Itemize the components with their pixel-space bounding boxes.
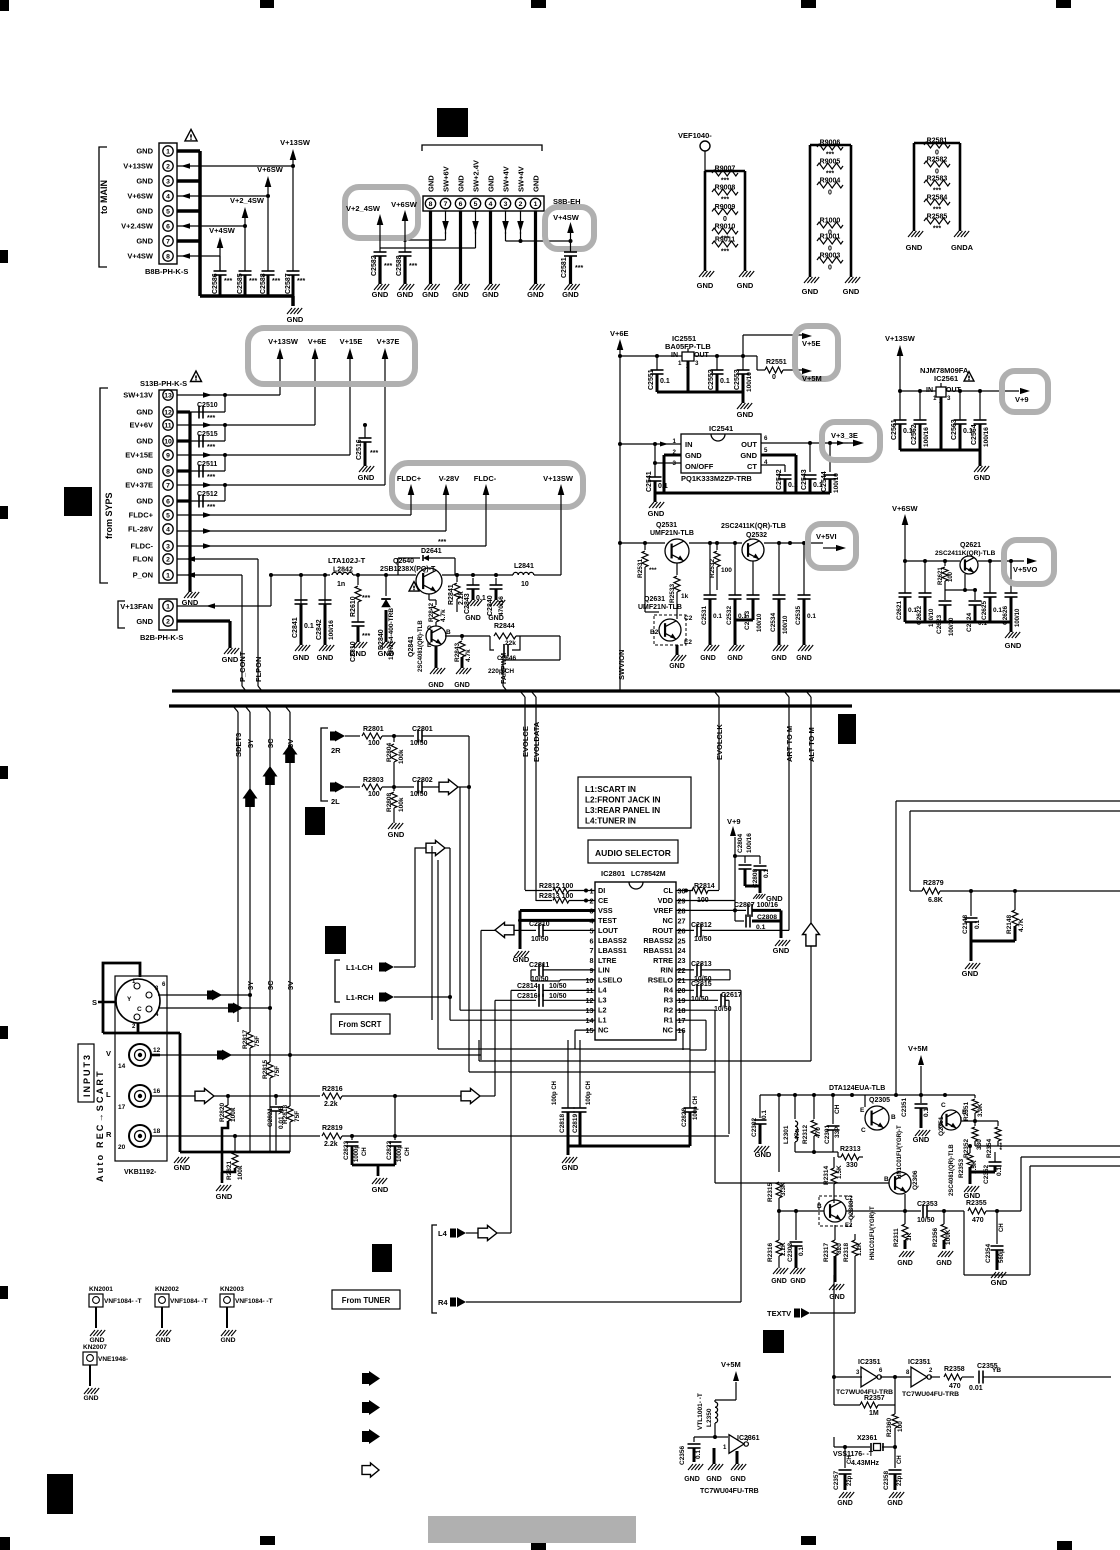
svg-text:GND: GND: [796, 655, 812, 662]
wire P_ON rail to driver: [271, 574, 330, 576]
node V+5VO: [1013, 558, 1038, 574]
svg-text:C2587: C2587: [285, 273, 292, 294]
svg-text:10/50: 10/50: [410, 740, 428, 747]
svg-text:CL: CL: [663, 886, 673, 895]
svg-text:Q2531: Q2531: [656, 522, 677, 529]
L4 R4 bracket: [432, 1225, 437, 1313]
resistor stack R9003-R9006: [810, 140, 851, 278]
svg-text:10: 10: [586, 976, 594, 985]
svg-text:B8B-PH-K-S: B8B-PH-K-S: [145, 267, 188, 276]
svg-text:C2821: C2821: [267, 1107, 274, 1127]
jack KN2007 VNE1948-: [83, 1344, 128, 1402]
L1-LCH arrow: [335, 853, 415, 1002]
node V+2_4SW (S8B): [346, 204, 383, 248]
svg-text:1: 1: [534, 201, 538, 208]
capacitor C2534: [770, 541, 789, 662]
svg-text:330: 330: [976, 1139, 983, 1150]
svg-text:V+6SW: V+6SW: [391, 200, 418, 209]
wire 3V: [285, 706, 295, 1055]
main bus upper line: [172, 689, 1120, 692]
capacitor C2356 0.1: [679, 1437, 715, 1483]
svg-text:GND: GND: [136, 617, 153, 626]
wire EV+6V: [177, 366, 367, 428]
capacitor C2148 0.1: [962, 891, 981, 941]
svg-text:E2: E2: [845, 1223, 853, 1229]
wires to MAIN gnd bus: [177, 151, 293, 306]
svg-text:R2551: R2551: [766, 359, 787, 366]
svg-text:100/10: 100/10: [833, 473, 840, 493]
svg-text:GND: GND: [457, 175, 466, 192]
svg-text:0.1: 0.1: [923, 1108, 930, 1117]
svg-text:D2641: D2641: [421, 548, 442, 555]
wire FLON to FLPON: [177, 556, 263, 691]
svg-text:0: 0: [935, 169, 939, 176]
svg-text:GND: GND: [730, 1476, 746, 1483]
wire R1 pin: [676, 1020, 706, 1050]
svg-text:VNE1948-: VNE1948-: [98, 1356, 128, 1363]
svg-text:C2533: C2533: [744, 610, 751, 630]
svg-text:GND: GND: [1005, 641, 1022, 650]
svg-text:100/10: 100/10: [783, 615, 789, 634]
svg-text:6: 6: [764, 435, 768, 442]
node V+5E: [802, 339, 821, 348]
capacitor C2806: [735, 910, 781, 938]
black filler square E: [325, 926, 346, 954]
svg-text:7: 7: [444, 201, 448, 208]
wire to V+5E: [743, 333, 812, 356]
svg-text:Q2621: Q2621: [960, 542, 981, 549]
svg-text:10/50: 10/50: [531, 976, 549, 983]
svg-text:27: 27: [678, 916, 686, 925]
transistor Q2306 HN1C01FU(YGR)-T: [884, 1125, 919, 1194]
svg-text:VTL1001- -T: VTL1001- -T: [697, 1393, 704, 1430]
svg-text:GND: GND: [737, 281, 754, 290]
svg-text:10/50: 10/50: [410, 791, 428, 798]
wire Q2306 base: [0, 0, 1, 1]
svg-text:6: 6: [166, 224, 170, 231]
svg-text:***: ***: [272, 278, 280, 285]
jack L (16/17): [106, 1085, 161, 1111]
IC2561 ground bus: [900, 450, 991, 482]
svg-text:GND: GND: [991, 1278, 1008, 1287]
svg-text:2SC2411K(QR)-TLB: 2SC2411K(QR)-TLB: [935, 550, 996, 557]
svg-text:10/50: 10/50: [549, 983, 567, 990]
svg-text:IC2541: IC2541: [709, 424, 733, 433]
black filler square G (TEXTV): [763, 1330, 784, 1353]
svg-text:VSS: VSS: [598, 906, 613, 915]
svg-text:C2581: C2581: [561, 257, 568, 278]
resistor stack R2581-R2585: [914, 138, 960, 233]
svg-text:C2352: C2352: [983, 1164, 990, 1184]
svg-text:3: 3: [166, 179, 170, 186]
capacitor C2588: [260, 271, 280, 296]
capacitor C2532: [726, 541, 747, 662]
svg-text:470: 470: [815, 1127, 822, 1138]
svg-text:2SC2411K(QR)-TLB: 2SC2411K(QR)-TLB: [721, 523, 786, 530]
transistor Q2621 2SC2411K(QR)-TLB: [935, 542, 996, 574]
capacitor C2587: [285, 271, 305, 296]
svg-text:R1: R1: [664, 1015, 673, 1024]
capacitor C2581: [561, 241, 583, 299]
svg-text:Q2305: Q2305: [869, 1097, 890, 1104]
svg-text:V+13FAN: V+13FAN: [120, 602, 153, 611]
svg-text:R9011: R9011: [715, 237, 735, 244]
svg-text:FANPWM: FANPWM: [501, 653, 508, 684]
inductor L2350 VTL1001-T: [697, 1393, 718, 1439]
svg-text:21: 21: [678, 976, 686, 985]
SCART connector outline: [115, 976, 167, 1161]
svg-text:2: 2: [166, 557, 170, 564]
capacitor C2621: [896, 561, 917, 622]
svg-text:C2841: C2841: [292, 617, 299, 638]
svg-text:GND: GND: [887, 1500, 903, 1507]
capacitor C2561: [891, 391, 913, 450]
svg-text:1k: 1k: [681, 593, 689, 600]
capacitor C2819 100p CH: [572, 1040, 592, 1146]
svg-text:KN2001: KN2001: [89, 1286, 113, 1293]
svg-text:11: 11: [164, 423, 171, 430]
resistor R2641: [448, 575, 465, 612]
wire SDET3: [233, 706, 243, 1022]
svg-text:***: ***: [297, 278, 305, 285]
capacitor C2807 (VREF): [676, 902, 781, 917]
black filler square D: [305, 807, 325, 835]
svg-text:100/16: 100/16: [328, 620, 335, 640]
svg-text:GND: GND: [422, 290, 439, 299]
svg-text:C2302: C2302: [751, 1117, 758, 1137]
capacitor C2813 (RIN): [676, 961, 730, 983]
svg-text:6.8K: 6.8K: [928, 897, 943, 904]
svg-text:L4: L4: [438, 1229, 448, 1238]
wire V+6E to IC2541 IN: [620, 442, 681, 447]
svg-text:560p: 560p: [999, 1249, 1005, 1263]
svg-text:GND: GND: [737, 410, 754, 419]
open arrow L1-LCH to IC: [415, 841, 452, 1000]
SCART jack grounds thick: [151, 1054, 160, 1057]
svg-text:R2813 100: R2813 100: [539, 893, 573, 900]
svg-text:GND: GND: [684, 1476, 700, 1483]
svg-text:R9006: R9006: [820, 140, 841, 147]
svg-text:Q2631: Q2631: [644, 596, 665, 603]
svg-text:C2814: C2814: [517, 983, 538, 990]
capacitor C2624: [966, 588, 987, 632]
capacitor C2823 1000p CH: [343, 1136, 368, 1165]
svg-text:R2803: R2803: [363, 777, 384, 784]
svg-text:PQ1K333M2ZP-TRB: PQ1K333M2ZP-TRB: [681, 474, 752, 483]
wire V+6SW output rail: [905, 559, 1024, 563]
svg-text:0: 0: [723, 216, 727, 223]
svg-text:VNF1084- -T: VNF1084- -T: [235, 1298, 273, 1305]
svg-text:0: 0: [772, 374, 776, 381]
capacitor C2563: [951, 391, 973, 450]
svg-text:C2818: C2818: [559, 1113, 566, 1133]
wire Q2641 base node: [445, 634, 490, 638]
IC U2801 LC78542M: [586, 869, 686, 1040]
svg-text:V+13SW: V+13SW: [268, 337, 299, 346]
INPUT3 label: [78, 1044, 94, 1102]
svg-text:2SB1238X(PQ)-T: 2SB1238X(PQ)-T: [380, 566, 436, 573]
svg-text:R9007: R9007: [715, 166, 736, 173]
svg-text:4: 4: [489, 201, 493, 208]
svg-text:L2841: L2841: [514, 563, 534, 570]
legend open arrow: [362, 1463, 379, 1477]
svg-text:330: 330: [846, 1162, 858, 1169]
svg-text:C: C: [941, 1102, 946, 1109]
svg-text:8: 8: [590, 956, 594, 965]
regulator IC2551 BA05FP-TLB: [665, 334, 711, 370]
svg-text:CH: CH: [847, 1455, 853, 1464]
resistor R2353 1.5K: [958, 1144, 978, 1178]
svg-text:C2303: C2303: [787, 1242, 794, 1262]
svg-text:LTRE: LTRE: [598, 956, 617, 965]
warning triangle (Q2640): [409, 582, 419, 591]
wire V+6E to V+5VI rail: [618, 541, 823, 545]
svg-text:16: 16: [153, 1088, 161, 1095]
svg-text:B: B: [891, 1114, 896, 1121]
capacitor C2352 0.1: [983, 1152, 1003, 1184]
SYPS ground bus: [177, 412, 190, 592]
svg-text:GND: GND: [136, 467, 153, 476]
svg-text:***: ***: [649, 567, 657, 574]
svg-text:0: 0: [828, 265, 832, 272]
svg-text:100/10: 100/10: [1015, 608, 1021, 627]
resistor R2313 330: [838, 1146, 863, 1169]
capacitor C2541: [646, 461, 668, 493]
svg-text:SW+4V: SW+4V: [517, 166, 526, 192]
ground GNDA (stack3): [951, 231, 974, 252]
wire IC2541 ON/OFF: [655, 444, 681, 463]
capacitor C2814 (L4): [511, 983, 595, 1233]
svg-text:0.1: 0.1: [807, 613, 816, 620]
svg-text:C2541: C2541: [646, 471, 653, 492]
svg-text:R2312: R2312: [802, 1124, 809, 1144]
resistor R2801: [345, 726, 414, 747]
svg-text:C2357: C2357: [833, 1470, 840, 1490]
svg-text:R2315: R2315: [767, 1182, 774, 1202]
capacitor C2585: [237, 271, 257, 296]
svg-text:C2552: C2552: [708, 369, 715, 390]
svg-text:R2820: R2820: [219, 1102, 226, 1122]
svg-text:GND: GND: [771, 655, 787, 662]
resistor R2533: [669, 563, 689, 619]
svg-text:EVOLDATA: EVOLDATA: [532, 721, 541, 762]
svg-text:GND: GND: [771, 1278, 787, 1285]
transistor Q2532 2SC2411K(QR)-TLB: [721, 523, 786, 561]
black filler square H (bottom left): [47, 1474, 73, 1514]
capacitor C2828 100p CH: [681, 1050, 699, 1146]
svg-text:SWVION: SWVION: [617, 650, 626, 680]
wire to right edge y1166: [964, 1166, 1120, 1275]
capacitor C2643: [464, 578, 486, 622]
svg-text:100: 100: [948, 571, 954, 582]
svg-text:3.9K: 3.9K: [977, 1103, 984, 1117]
svg-text:C2301: C2301: [824, 1124, 831, 1144]
resistor R2808: [386, 787, 405, 820]
svg-text:UMF21N-TLB: UMF21N-TLB: [638, 604, 682, 611]
svg-text:RIN: RIN: [660, 966, 673, 975]
svg-text:3Y: 3Y: [246, 981, 255, 990]
svg-text:2.2K: 2.2K: [780, 1242, 787, 1256]
black filler square A: [64, 487, 92, 516]
svg-text:C2148: C2148: [962, 914, 969, 934]
svg-text:YB: YB: [992, 1367, 1001, 1374]
block arrow 3V: [283, 744, 298, 763]
svg-text:13: 13: [164, 393, 172, 400]
R4 input arrow: [438, 1297, 741, 1307]
svg-text:R2821: R2821: [226, 1160, 233, 1180]
svg-text:75F: 75F: [274, 1066, 281, 1077]
svg-text:V+6SW: V+6SW: [892, 504, 919, 513]
grey highlight V+5E V+5M: [795, 326, 838, 379]
svg-text:GND: GND: [897, 1260, 913, 1267]
svg-text:SW+6V: SW+6V: [442, 166, 451, 192]
svg-text:KN2003: KN2003: [220, 1286, 244, 1293]
wire L out: [151, 1089, 320, 1104]
svg-text:GND: GND: [83, 1395, 98, 1402]
wire R2 pin: [676, 1010, 889, 1183]
svg-text:GND: GND: [136, 237, 153, 246]
svg-text:R2816: R2816: [322, 1086, 343, 1093]
svg-text:6: 6: [166, 499, 170, 506]
node V+13SW riser: [280, 138, 311, 271]
svg-text:0.1: 0.1: [763, 869, 770, 878]
node V+2_4SW riser: [230, 196, 265, 271]
regulator IC2561 NJM78M09FA: [920, 366, 969, 405]
wire trap bottom node: [795, 1150, 838, 1154]
capacitor C2588b: [396, 240, 417, 299]
svg-text:SW+13V: SW+13V: [123, 391, 153, 400]
svg-text:22k: 22k: [505, 640, 516, 647]
svg-text:GND: GND: [964, 1191, 981, 1200]
resistor R2812: [525, 883, 595, 893]
svg-text:0.01: 0.01: [969, 1385, 983, 1392]
svg-text:GND: GND: [378, 649, 395, 658]
ground (R2820 R2821): [216, 1172, 233, 1201]
svg-text:12: 12: [153, 1047, 161, 1054]
svg-text:AUDIO SELECTOR: AUDIO SELECTOR: [595, 848, 671, 858]
svg-text:IC2351: IC2351: [908, 1359, 931, 1366]
svg-text:From TUNER: From TUNER: [342, 1296, 391, 1305]
svg-text:C2515: C2515: [197, 431, 218, 438]
node V+4SW riser: [209, 226, 236, 271]
node V+9: [1015, 388, 1030, 404]
capacitor C2510: [190, 393, 227, 422]
wire NC pin15: [575, 1030, 595, 1049]
capacitor C2542: [776, 469, 798, 493]
VKB1192- label: [124, 1169, 157, 1176]
svg-text:***: ***: [721, 178, 729, 185]
resistor R2312 470: [802, 1095, 822, 1152]
svg-text:1: 1: [933, 395, 937, 402]
resistor R2804: [386, 736, 405, 778]
svg-text:RSELO: RSELO: [648, 976, 673, 985]
svg-text:0.01 YB: 0.01 YB: [278, 1105, 285, 1129]
svg-text:GND: GND: [837, 1500, 853, 1507]
svg-text:GND: GND: [427, 175, 436, 192]
wire EVOLDATA: [531, 691, 541, 901]
svg-text:Q2532: Q2532: [746, 532, 767, 539]
svg-text:DI: DI: [598, 886, 605, 895]
grey highlight V+2_4SW V+6SW: [345, 187, 418, 238]
wire C out: [158, 1003, 272, 1014]
svg-text:***: ***: [933, 207, 941, 214]
svg-text:3: 3: [166, 544, 170, 551]
svg-text:TEXTV: TEXTV: [767, 1309, 791, 1318]
capacitor C2640: [487, 578, 505, 622]
svg-text:***: ***: [207, 444, 215, 451]
warning triangle (to MAIN): [185, 129, 197, 141]
svg-text:C2816: C2816: [517, 993, 538, 1000]
svg-text:GND: GND: [527, 290, 544, 299]
capacitor C2551: [648, 356, 670, 392]
svg-text:GND: GND: [155, 1337, 170, 1344]
wire V+13SW to IC2561: [900, 389, 936, 393]
node V+13SW rail (NJM): [885, 334, 916, 393]
svg-text:CH: CH: [834, 1104, 841, 1114]
svg-text:R2842: R2842: [428, 602, 435, 622]
transistor Q2641 2SC4081(QR)-TLB: [408, 620, 451, 672]
svg-text:R2585: R2585: [927, 214, 948, 221]
osc input wire: [832, 1275, 862, 1405]
warning triangle (SYPS): [191, 371, 202, 382]
svg-text:0.1: 0.1: [304, 623, 314, 630]
main bus lower line: [169, 704, 852, 707]
svg-text:GND: GND: [843, 287, 860, 296]
svg-text:GND: GND: [685, 451, 702, 460]
svg-text:2.2k: 2.2k: [324, 1141, 338, 1148]
svg-text:0.1: 0.1: [720, 378, 730, 385]
svg-text:GND: GND: [454, 682, 470, 689]
svg-text:0: 0: [828, 246, 832, 253]
svg-text:X2361: X2361: [857, 1435, 877, 1442]
svg-text:CH: CH: [897, 1455, 903, 1464]
svg-text:Q2306: Q2306: [912, 1170, 919, 1190]
resistor R2803: [345, 777, 414, 798]
svg-text:R9009: R9009: [715, 204, 736, 211]
svg-text:R2358: R2358: [944, 1366, 965, 1373]
svg-text:VKB1192-: VKB1192-: [124, 1169, 157, 1176]
svg-text:UMF21N-TLB: UMF21N-TLB: [650, 530, 694, 537]
capacitor C2357 22p CH: [833, 1445, 854, 1507]
IC2551 ground bus: [657, 392, 754, 419]
inverter IC2351 A: [836, 1359, 893, 1396]
svg-text:R2817: R2817: [242, 1029, 249, 1049]
svg-text:V+9: V+9: [727, 817, 741, 826]
svg-text:C2: C2: [845, 1196, 853, 1202]
svg-text:1n: 1n: [337, 581, 345, 588]
capacitor C2626: [1002, 561, 1021, 627]
svg-text:R2316: R2316: [767, 1242, 774, 1262]
svg-text:R2148: R2148: [1006, 914, 1013, 934]
svg-text:0: 0: [935, 150, 939, 157]
svg-text:CH: CH: [362, 1147, 368, 1156]
S8B-EH ground pins to GND: [422, 211, 545, 299]
R2353 C2352 ground: [964, 1172, 995, 1200]
svg-text:R1001: R1001: [820, 234, 841, 241]
svg-text:GND: GND: [372, 1185, 389, 1194]
svg-text:0.1: 0.1: [660, 378, 670, 385]
svg-text:L2350: L2350: [706, 1408, 713, 1427]
resistor R2814 (CL): [676, 883, 719, 1050]
svg-text:RBASS1: RBASS1: [643, 946, 673, 955]
node V+5M (video): [908, 1044, 928, 1095]
svg-text:GND: GND: [428, 682, 444, 689]
svg-text:C2819: C2819: [572, 1113, 579, 1133]
svg-text:0.1: 0.1: [695, 1450, 702, 1459]
C2148 R2148 ground: [962, 941, 1015, 978]
svg-text:22: 22: [678, 966, 686, 975]
svg-text:3: 3: [947, 395, 951, 402]
